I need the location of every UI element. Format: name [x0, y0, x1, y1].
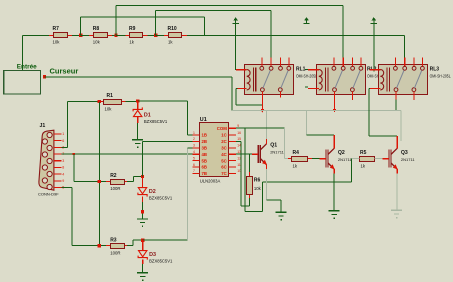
zener diode D3	[138, 251, 173, 264]
Q1 collector red lead	[266, 139, 267, 140]
RL1 pole 2 stub	[280, 92, 281, 98]
U1 pin 13 (4C)	[221, 150, 241, 157]
junction on pin4 wire	[73, 153, 75, 155]
svg-text:6C: 6C	[221, 165, 227, 170]
svg-text:100R: 100R	[110, 250, 120, 255]
U1 pin 2 (2B)	[193, 137, 208, 144]
junction node R9/R10	[154, 34, 157, 37]
wire R5 left riser	[351, 159, 352, 182]
svg-text:R2: R2	[110, 173, 117, 179]
svg-text:ULN2003A: ULN2003A	[200, 179, 221, 184]
svg-text:3B: 3B	[202, 146, 208, 151]
wire D1 to ground	[137, 123, 138, 139]
junction node below D2	[141, 210, 144, 213]
U1 pin 16 (1C)	[221, 131, 241, 138]
diode D3 top lead	[142, 240, 143, 250]
relay RL1 coil pin 2	[236, 88, 247, 89]
wire R1 to D1 junction	[126, 101, 138, 102]
faint link RL2 to Q2 rail	[306, 110, 307, 134]
relay RL1 pole P2	[278, 71, 288, 92]
relay RL2 contact terminal T1	[332, 58, 336, 71]
svg-text:COM: COM	[217, 126, 227, 131]
svg-text:6B: 6B	[202, 165, 208, 170]
relay RL1 label	[296, 67, 317, 79]
wire RL2 to Q2 collector	[306, 134, 334, 135]
relay RL2 coil pin 1	[308, 69, 319, 70]
diode D3 bottom lead	[142, 260, 143, 264]
svg-text:5B: 5B	[202, 158, 208, 163]
wire: drop to RL1 contact	[271, 11, 272, 58]
faint wire down to R4	[284, 128, 285, 159]
wire R4 to Q2 base	[312, 158, 320, 159]
svg-text:15: 15	[237, 137, 241, 141]
svg-text:10k: 10k	[254, 186, 262, 191]
U1 pin 11 (6C)	[221, 163, 241, 170]
wire riser down to U1 pin 1	[187, 101, 188, 135]
svg-text:D3: D3	[149, 252, 156, 258]
junction node at D2	[141, 175, 144, 178]
svg-text:2N1711: 2N1711	[401, 157, 415, 162]
wire: rail drop to RL3 contact	[404, 35, 405, 57]
relay RL2 coil pin 2	[308, 88, 319, 89]
Q2 collector stub	[334, 135, 335, 144]
wire R10 right to rail corner	[187, 35, 204, 36]
wire D1 junction to U1 pin riser	[138, 101, 188, 102]
zener diode D1	[133, 107, 168, 124]
resistor R1	[99, 93, 126, 112]
terminal Entree box	[4, 71, 41, 95]
wire U1 4C to Q1 base	[236, 154, 253, 155]
svg-text:2C: 2C	[221, 139, 227, 144]
relay RL3 pole P2	[412, 71, 422, 92]
svg-text:6: 6	[62, 139, 64, 143]
svg-text:10k: 10k	[53, 39, 61, 44]
wire J1 pin net to R1	[68, 101, 100, 102]
RL3 pole 2 stub	[413, 92, 414, 100]
connector J1 pin 7	[54, 152, 64, 156]
relay RL1 contact terminal T2	[269, 58, 273, 71]
relay RL3 label	[430, 67, 451, 79]
power symbol 2	[303, 17, 309, 24]
wire junction to R9	[116, 35, 125, 36]
U1 pin 5 (5B)	[193, 156, 208, 163]
svg-text:R5: R5	[360, 150, 367, 156]
faint net across relay poles	[232, 110, 401, 111]
wire J1 pin9 to R3	[61, 187, 72, 188]
svg-text:100R: 100R	[110, 186, 120, 191]
svg-text:Entrée: Entrée	[17, 63, 37, 70]
connector J1 pin 8	[54, 166, 64, 170]
resistor R6	[247, 172, 262, 198]
faint R5 left lead	[351, 158, 359, 159]
relay RL3 contact terminal T1	[394, 58, 398, 71]
wire: R8/R9 tap riser	[116, 6, 117, 36]
wire: drop to RL2 contact	[343, 6, 344, 58]
U1 pin 6 (6B)	[193, 163, 208, 170]
resistor R4	[288, 150, 312, 168]
relay RL2 pole P2	[351, 71, 361, 92]
svg-text:RL1: RL1	[296, 67, 306, 73]
svg-text:5: 5	[193, 156, 195, 160]
svg-text:R7: R7	[53, 26, 60, 32]
junction node at D1	[136, 99, 139, 102]
relay RL1 contact terminal T1	[260, 58, 264, 71]
wire junction to R8	[81, 35, 90, 36]
wire: power 1 to RL1 coil	[235, 24, 236, 70]
wire R7-R8	[72, 35, 81, 36]
node Curseur origin	[43, 75, 46, 78]
relay RL1 pole P1	[261, 71, 271, 92]
wire into U1 pin 1	[187, 135, 192, 136]
svg-text:3: 3	[62, 159, 64, 163]
Q1 emitter faint lead	[266, 169, 267, 200]
relay RL2 pole P1	[333, 71, 343, 92]
relay RL3 contact terminal T3	[412, 58, 416, 71]
connector J1 pin 5	[54, 186, 64, 190]
svg-text:Curseur: Curseur	[50, 67, 79, 76]
svg-text:9: 9	[237, 124, 239, 128]
svg-text:R10: R10	[168, 26, 177, 32]
svg-text:BZX85C5V1: BZX85C5V1	[149, 259, 173, 264]
junction node at D3	[141, 239, 144, 242]
svg-text:7: 7	[193, 169, 195, 173]
svg-text:1: 1	[62, 132, 64, 136]
svg-text:R9: R9	[129, 26, 136, 32]
connector J1 pin 1	[54, 132, 64, 136]
transistor Q3	[383, 144, 416, 174]
svg-text:9: 9	[62, 179, 64, 183]
U1 pin 1 (1B)	[193, 131, 208, 138]
svg-text:11: 11	[237, 163, 241, 167]
resistor R7	[49, 26, 72, 44]
svg-text:Q1: Q1	[270, 143, 277, 149]
svg-text:4: 4	[62, 172, 64, 176]
junction node R8/R9	[114, 34, 117, 37]
RL2 pole 1 stub with arrow	[333, 92, 337, 113]
svg-text:7B: 7B	[202, 171, 208, 176]
power symbol 3	[371, 17, 377, 24]
relay RL2 label	[367, 67, 388, 79]
wire RL3 coil- to Q3 collector	[368, 88, 371, 89]
svg-text:2: 2	[193, 137, 195, 141]
U1 pin 9 (COM)	[217, 124, 239, 131]
wire: long rail to RL3	[205, 35, 405, 36]
resistor R5	[360, 150, 375, 168]
resistor R10	[164, 26, 187, 44]
wire D2 junction up to U1 pin 2	[142, 141, 143, 176]
relay RL2 contact terminal T4	[359, 58, 363, 71]
relay RL3 contact terminal T4	[421, 58, 425, 71]
svg-text:U1: U1	[200, 117, 207, 123]
wire bus R1-R2-R3	[99, 102, 100, 246]
svg-text:7C: 7C	[221, 171, 227, 176]
wire branch to R6 top	[249, 154, 250, 172]
faint link to Q3 collector	[400, 110, 401, 141]
wire U1 2C branch	[236, 141, 241, 142]
svg-text:5C: 5C	[221, 158, 227, 163]
connector J1 pin 6	[54, 139, 64, 143]
ground near Q1	[276, 212, 287, 221]
ground for Q2	[329, 210, 340, 219]
relay RL2 contact terminal T2	[341, 58, 345, 71]
relay RL3 contact terminal T2	[403, 58, 407, 71]
U1 pin 3 (3B)	[193, 144, 208, 151]
svg-text:R6: R6	[254, 178, 261, 184]
wire: input corner to R7	[22, 35, 49, 36]
wire: bus at y=10.7	[156, 10, 271, 11]
junction at R1 left	[98, 100, 101, 103]
RL2 pole 2 stub	[352, 92, 353, 100]
diode D1 anode lead	[137, 117, 138, 123]
riser to U1 pin 3 (faint)	[187, 148, 188, 240]
U1 pin 12 (5C)	[221, 156, 241, 163]
power symbol 1	[232, 17, 238, 24]
wire D2 to ground	[142, 202, 143, 218]
wire Q1 emitter to ground	[267, 200, 282, 201]
svg-text:CONN-D9F: CONN-D9F	[38, 192, 59, 197]
relay RL2 body	[317, 65, 366, 95]
relay RL3 coil	[380, 68, 390, 92]
wire RL1 coil- down and across	[236, 88, 238, 89]
wire: tap bus at y=17	[81, 17, 205, 18]
wire R2 to D2 junction	[127, 181, 133, 182]
wire R9-R10	[147, 35, 155, 36]
svg-text:4C: 4C	[221, 152, 227, 157]
wire: top bus at y=5.7	[116, 5, 343, 6]
U1 pin 14 (3C)	[221, 144, 241, 151]
svg-text:R3: R3	[110, 237, 117, 243]
svg-text:6: 6	[193, 163, 195, 167]
relay RL3 coil pin 2	[370, 88, 381, 89]
connector J1 pin 2	[54, 146, 64, 150]
svg-text:2N1711: 2N1711	[270, 149, 284, 154]
U1 pin 4 (4B)	[193, 150, 208, 157]
svg-text:R8: R8	[93, 26, 100, 32]
relay RL3 pole P1	[394, 71, 404, 92]
U1 pin 10 (7C)	[221, 169, 241, 176]
Q3 collector stub	[397, 136, 398, 144]
resistor R8	[89, 26, 112, 44]
svg-text:OMI-SH-205L: OMI-SH-205L	[430, 74, 451, 79]
ground for D1	[132, 139, 143, 148]
RL1 pole 1 stub with arrow	[261, 92, 265, 113]
svg-text:2N1711: 2N1711	[338, 157, 352, 162]
zener diode D2	[138, 188, 173, 201]
transistor Q2	[320, 144, 353, 174]
ground for D3	[137, 272, 148, 281]
svg-text:1B: 1B	[202, 133, 208, 138]
svg-text:1: 1	[193, 131, 195, 135]
wire to R6 bottom	[241, 205, 249, 206]
svg-text:D2: D2	[149, 189, 156, 195]
svg-text:8: 8	[62, 166, 64, 170]
svg-text:J1: J1	[40, 123, 46, 129]
faint R5 right lead to Q3 base	[374, 158, 382, 159]
wire emitter bus	[263, 181, 352, 182]
junction bus at R3	[98, 244, 101, 247]
svg-text:4B: 4B	[202, 152, 208, 157]
svg-text:D1: D1	[144, 113, 151, 119]
ground for D2	[137, 218, 148, 227]
wire R8-R9	[112, 35, 116, 36]
svg-text:Q2: Q2	[338, 150, 345, 156]
transistor Q1	[252, 139, 285, 169]
RL3 pole 1 stub	[395, 92, 396, 111]
relay RL1 contact terminal T4	[287, 58, 291, 71]
wire U1 COM branch down	[245, 128, 246, 211]
svg-text:R4: R4	[293, 150, 300, 156]
svg-text:1C: 1C	[221, 133, 227, 138]
svg-text:BZX85C5V1: BZX85C5V1	[149, 195, 173, 200]
wire RL2 coil nub 2	[305, 87, 308, 88]
connector J1	[39, 130, 54, 190]
wire riser up to emitter bus	[262, 182, 263, 212]
Q2 emitter lead to ground	[334, 174, 335, 211]
relay RL2 coil	[319, 68, 329, 92]
wire D3 junction to U1 pin 3 riser	[143, 240, 188, 241]
relay RL1 body	[245, 65, 294, 95]
U1 pin 15 (2C)	[221, 137, 241, 144]
wire U1 COM to R4 column	[236, 128, 285, 129]
svg-text:R1: R1	[107, 93, 114, 99]
svg-text:16: 16	[237, 131, 241, 135]
svg-text:4: 4	[193, 150, 195, 154]
svg-text:OMI-SH-205L: OMI-SH-205L	[296, 74, 317, 79]
diode D2 bottom lead	[142, 197, 143, 202]
resistor R9	[125, 26, 147, 44]
relay RL1 coil pin 1	[236, 69, 247, 70]
U1 pin 7 (7B)	[193, 169, 208, 176]
IC U1 ULN2003A body	[200, 123, 229, 177]
wire Curseur drop	[232, 77, 233, 111]
relay RL2 contact terminal T3	[351, 58, 355, 71]
wire J1 pin2 to R1 net	[67, 102, 68, 148]
junction node R7/R8	[79, 34, 82, 37]
svg-text:Q3: Q3	[401, 150, 408, 156]
wire R3 to D3 junction	[127, 245, 133, 246]
wire J1 pin4 long to U1 pin 4	[61, 154, 192, 155]
relay RL1 coil	[247, 68, 257, 92]
wire: power 3 to RL3 coil	[373, 24, 374, 71]
svg-text:3C: 3C	[221, 146, 227, 151]
diode D2 top lead	[142, 177, 143, 188]
junction bus at R2	[98, 180, 101, 183]
connector J1 pin 4	[54, 172, 64, 176]
wire across to emitter riser	[245, 211, 262, 212]
relay RL1 contact terminal T3	[279, 58, 283, 71]
svg-text:3: 3	[193, 144, 195, 148]
faint ground for Q3	[391, 210, 402, 219]
wire RL2 coil nub 1	[305, 69, 308, 70]
wire: bend down to rail	[204, 17, 205, 35]
svg-text:10k: 10k	[105, 107, 113, 112]
svg-text:2B: 2B	[202, 139, 208, 144]
svg-text:10k: 10k	[93, 39, 101, 44]
wire: down to Entree box	[22, 35, 23, 70]
relay RL3 coil pin 1	[370, 69, 381, 70]
wire D3 to ground	[142, 264, 143, 272]
relay RL3 body	[379, 65, 428, 95]
resistor R2	[106, 173, 127, 191]
wire drop to R2	[73, 154, 74, 182]
Q3 emitter faint lead to ground	[397, 174, 398, 210]
svg-text:BZX85C5V1: BZX85C5V1	[144, 119, 168, 124]
connector J1 pin 9	[54, 179, 64, 183]
wire Curseur	[44, 76, 232, 77]
connector J1 pin 3	[54, 159, 64, 163]
wire: R9/R10 tap riser	[155, 11, 156, 36]
wire: R7/R8 tap riser	[80, 17, 81, 35]
faint link to Q1 collector	[266, 110, 267, 139]
svg-text:RL3: RL3	[430, 67, 440, 73]
diode D1 cathode lead	[137, 101, 138, 109]
resistor R3	[106, 237, 127, 255]
wire junction to R10	[156, 35, 164, 36]
